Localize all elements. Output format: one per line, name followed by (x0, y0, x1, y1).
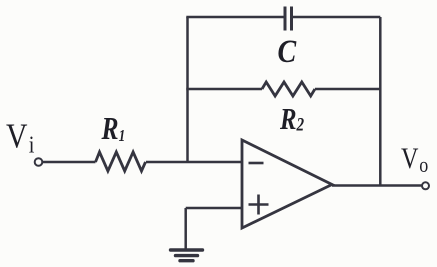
wire left vertical feedback (186, 17, 189, 162)
capacitor C (285, 7, 292, 31)
wire right vertical feedback (379, 17, 382, 186)
wire middle branch left (186, 88, 262, 91)
op-amp U1 (242, 140, 332, 228)
ground (171, 250, 203, 261)
svg-text:Vo: Vo (401, 142, 428, 178)
svg-text:R1: R1 (101, 111, 126, 146)
op-amp plus sign (249, 195, 269, 215)
op-amp minus sign (249, 162, 264, 165)
wire ground stem (184, 208, 187, 249)
wire top branch left (186, 16, 284, 19)
svg-text:C: C (278, 33, 297, 70)
resistor R1 (96, 152, 146, 171)
wire noninverting input (186, 207, 242, 210)
wire top branch right (293, 16, 380, 19)
wire input right segment to op-amp inverting input (146, 161, 242, 164)
svg-text:R2: R2 (279, 102, 304, 136)
svg-text:Vi: Vi (6, 117, 34, 158)
output terminal Vo (422, 182, 429, 189)
wire middle branch right (315, 88, 380, 91)
resistor R2 (262, 82, 315, 96)
wire input left segment (43, 161, 96, 164)
input terminal Vi (35, 158, 43, 166)
wire output (332, 184, 422, 187)
